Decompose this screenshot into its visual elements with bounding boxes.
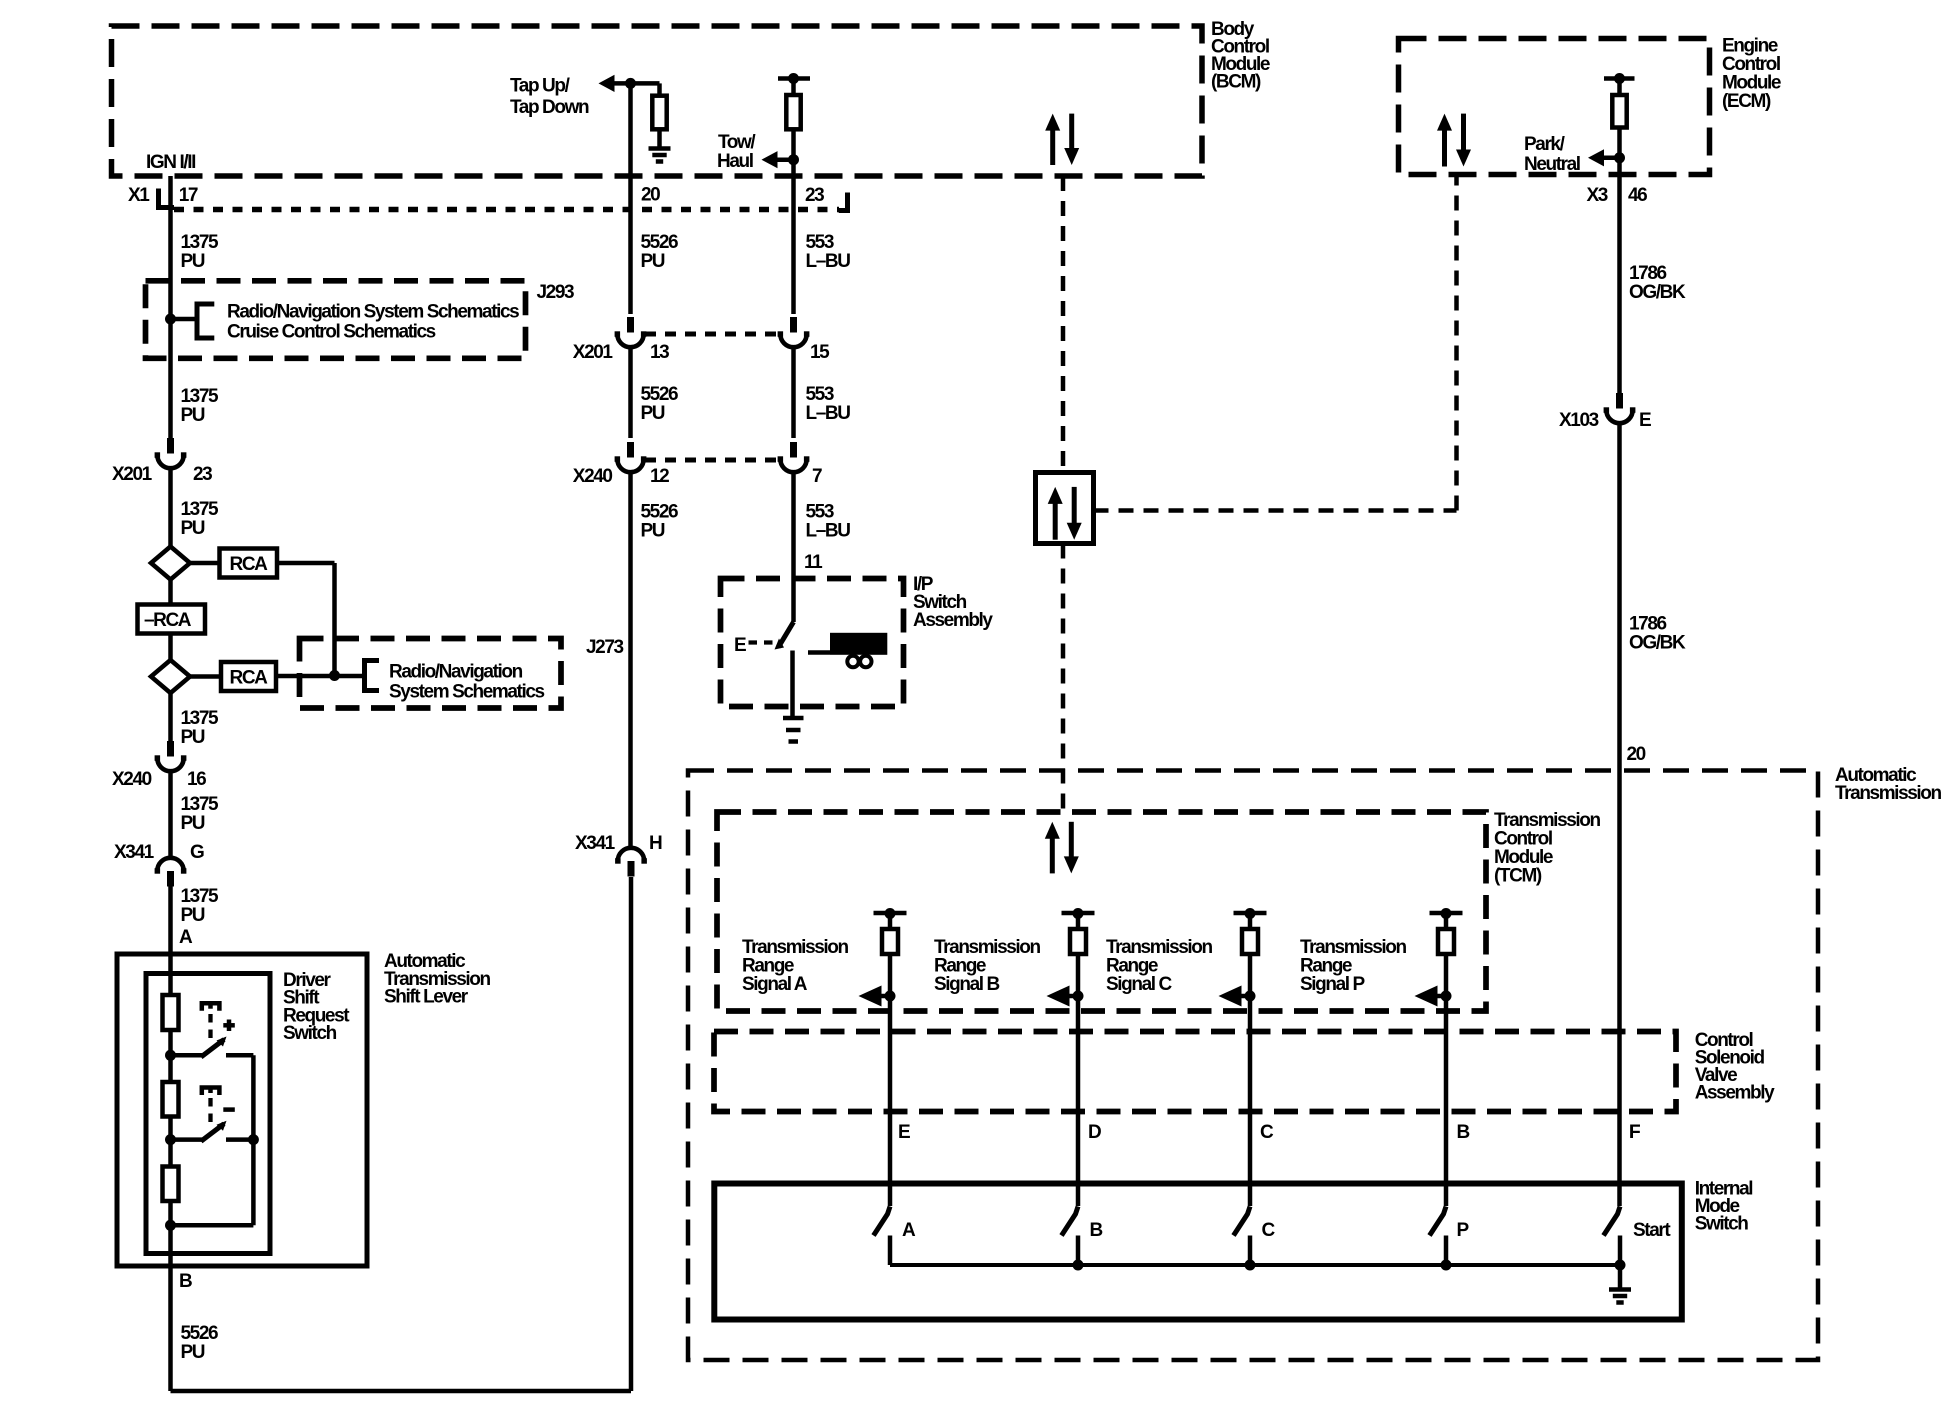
TCM internal bar for Signal A (874, 911, 907, 916)
Engine Control Module (ECM) dashed box (1399, 39, 1710, 175)
svg-text:C: C (1262, 1220, 1276, 1241)
wire 553 L-BU to BCM pin 23 (791, 129, 796, 314)
svg-text:B: B (179, 1271, 192, 1292)
svg-text:553: 553 (806, 384, 834, 405)
pull-up resistor Signal C (1248, 914, 1253, 930)
wire to J293 bracket (171, 317, 198, 322)
svg-text:1375: 1375 (181, 232, 220, 253)
resistor in BCM on tap signal (652, 96, 666, 130)
trailer icon body (830, 633, 887, 655)
TCM serial data up/down arrows (1050, 838, 1055, 874)
connector X341 pin H (628, 861, 635, 877)
serial data dashed branch to ECM (1094, 508, 1457, 513)
Tow/Haul arrow (776, 157, 794, 162)
wire label 553 L-BU mid (791, 347, 796, 438)
svg-text:46: 46 (1628, 185, 1647, 206)
tap-down contact to right rail (226, 1137, 253, 1142)
minus label (223, 1107, 235, 1112)
ECM internal bar for park/neutral signal (1604, 76, 1635, 81)
svg-text:Shift Lever: Shift Lever (384, 987, 469, 1008)
svg-text:16: 16 (187, 769, 206, 790)
svg-text:Radio/Navigation System Schema: Radio/Navigation System Schematics (227, 302, 519, 323)
svg-text:Transmission: Transmission (1835, 783, 1941, 804)
svg-text:Haul: Haul (717, 151, 753, 172)
svg-text:H: H (649, 833, 662, 854)
wire 1786 OG/BK down to transmission (1617, 423, 1622, 1206)
svg-text:X201: X201 (112, 464, 153, 485)
junction dot tap signal (625, 78, 636, 89)
connector X240 pin 16 (167, 741, 174, 757)
wire bottom run from B to X341 H (171, 1389, 632, 1394)
wire 1375 PU to shift lever pin A (168, 887, 173, 996)
svg-text:Assembly: Assembly (1695, 1083, 1775, 1104)
svg-text:PU: PU (181, 905, 205, 926)
wire Signal C down to internal mode switch (1248, 954, 1253, 1206)
wire 5526 PU down to X341 H (628, 472, 633, 848)
svg-text:PU: PU (641, 403, 665, 424)
switch contact wire P (1444, 1236, 1449, 1266)
svg-text:X240: X240 (573, 466, 613, 487)
svg-text:PU: PU (181, 813, 205, 834)
svg-text:Switch: Switch (283, 1023, 337, 1044)
svg-text:Assembly: Assembly (913, 610, 993, 631)
BCM serial data up/down arrows (1050, 130, 1055, 165)
svg-text:PU: PU (181, 251, 205, 272)
svg-text:B: B (1090, 1220, 1103, 1241)
connector X240 pin 7 (790, 442, 797, 458)
wire diamond1 to -RCA box (168, 580, 173, 605)
svg-text:Neutral: Neutral (1524, 154, 1580, 175)
Park/Neutral arrow (1602, 156, 1620, 161)
Tap Up/Tap Down arrow (613, 81, 631, 86)
junction dot of RCA branches (329, 670, 340, 681)
svg-text:PU: PU (181, 405, 205, 426)
svg-text:L–BU: L–BU (806, 403, 851, 424)
connector X103 pin E (1616, 393, 1623, 409)
junction splice block J273 dashed box (300, 639, 562, 709)
wire 1375 PU from BCM pin 17 down to X201 (168, 176, 173, 438)
ground of internal mode switch (1618, 1265, 1623, 1289)
svg-text:X240: X240 (112, 769, 152, 790)
svg-text:L–BU: L–BU (806, 251, 851, 272)
svg-text:OG/BK: OG/BK (1629, 282, 1686, 303)
wire below switch to ground (790, 651, 795, 717)
svg-text:X1: X1 (128, 185, 150, 206)
svg-text:11: 11 (804, 552, 823, 573)
svg-text:L–BU: L–BU (806, 521, 851, 542)
switch blade B (1062, 1207, 1079, 1236)
X201 tie dashes (645, 332, 780, 337)
RCA box lower (221, 662, 276, 691)
svg-text:1786: 1786 (1629, 263, 1667, 284)
-RCA box (138, 605, 206, 634)
bottom rail to junction (171, 1223, 254, 1228)
tap-down switch blade (201, 1124, 224, 1142)
Automatic Transmission Shift Lever box (117, 954, 367, 1266)
Transmission Range Signal A arrow (880, 994, 891, 999)
Control Solenoid Valve Assembly dashed box (714, 1032, 1676, 1112)
wire diamond to RCA box (190, 561, 220, 566)
ECM serial data up/down arrows (1442, 130, 1447, 167)
svg-text:Signal P: Signal P (1300, 974, 1365, 995)
Transmission Range Signal P arrow (1436, 994, 1447, 999)
TCM internal bar for Signal P (1430, 911, 1463, 916)
tap-down switch feed (171, 1137, 203, 1142)
tap-up switch feed (171, 1053, 203, 1058)
svg-text:23: 23 (193, 464, 212, 485)
tap-up switch fixed contact bracket (202, 1003, 220, 1011)
svg-text:X341: X341 (114, 842, 155, 863)
svg-text:RCA: RCA (230, 668, 269, 689)
right rail of shift switch (251, 1055, 256, 1225)
pull-up resistor Signal A (888, 914, 893, 930)
dashed link E to blade (749, 640, 780, 644)
X240 tie dashes (645, 458, 780, 463)
junction dot on wire in J293 (165, 314, 176, 325)
svg-text:X201: X201 (573, 342, 614, 363)
tap-down switch fixed contact bracket (202, 1088, 220, 1096)
pull-up resistor Signal B (1076, 914, 1081, 930)
tap-down switch dashed actuator link (208, 1098, 212, 1124)
svg-text:5526: 5526 (641, 502, 679, 523)
svg-text:(BCM): (BCM) (1211, 72, 1261, 93)
internal bar at BCM for tow/haul signal (778, 76, 810, 81)
svg-text:20: 20 (1627, 744, 1646, 765)
wire 1375 PU below X201 (168, 468, 173, 547)
svg-text:(ECM): (ECM) (1722, 91, 1771, 112)
switch contact wire A (888, 1236, 893, 1266)
svg-text:IGN I/II: IGN I/II (146, 152, 196, 173)
svg-text:15: 15 (810, 342, 830, 363)
branch to BCM pull resistor (631, 81, 660, 86)
Automatic Transmission dashed box (688, 771, 1818, 1361)
wire label 5526 PU mid (628, 347, 633, 438)
wire R2 to R3 with junction (168, 1117, 173, 1167)
connector X1 bracket right (839, 193, 848, 211)
svg-text:Radio/Navigation: Radio/Navigation (389, 662, 523, 683)
svg-text:Park/: Park/ (1524, 134, 1566, 155)
wire RCA2 into J273 (276, 674, 365, 679)
svg-text:P: P (1457, 1220, 1470, 1241)
resistor R-top in shift switch (163, 995, 179, 1030)
wire 553 L-BU to I/P switch (791, 472, 796, 622)
splice diamond upper (151, 547, 190, 580)
wire 1375 PU below X240 (168, 771, 173, 858)
wire label 1375 PU below diamond2 (168, 693, 173, 742)
wire Signal B down to internal mode switch (1076, 954, 1081, 1206)
svg-text:7: 7 (812, 466, 822, 487)
svg-text:17: 17 (179, 185, 198, 206)
svg-text:Tow/: Tow/ (718, 132, 756, 153)
resistor in BCM on tow/haul signal (791, 79, 796, 96)
ground below I/P switch (783, 716, 804, 721)
RCA box upper (220, 549, 278, 578)
Internal Mode Switch box (714, 1184, 1682, 1320)
svg-text:1375: 1375 (181, 708, 220, 729)
svg-text:C: C (1260, 1122, 1274, 1143)
connector X201 pin 13 (627, 317, 634, 333)
plus label (227, 1020, 232, 1032)
svg-text:5526: 5526 (641, 384, 679, 405)
svg-text:1375: 1375 (181, 499, 220, 520)
wire 5526 PU from junction to BCM pin 20 (628, 83, 633, 314)
connector X341 pin G (167, 871, 174, 887)
svg-text:(TCM): (TCM) (1494, 866, 1542, 887)
internal mode switch common bus (890, 1263, 1620, 1267)
resistor R-mid (163, 1082, 179, 1117)
splice diamond lower (151, 660, 190, 693)
wire R3 down through box to B (168, 1201, 173, 1391)
tap-up contact to right rail (226, 1053, 253, 1058)
tap-up switch dashed actuator link (208, 1014, 212, 1040)
Transmission Range Signal B arrow (1068, 994, 1079, 999)
X1 connector dotted line (174, 207, 839, 213)
svg-text:J273: J273 (586, 637, 624, 658)
svg-text:Switch: Switch (1695, 1214, 1749, 1235)
J293 bracket (197, 304, 214, 338)
svg-text:OG/BK: OG/BK (1629, 633, 1686, 654)
svg-text:5526: 5526 (641, 232, 679, 253)
serial data dashed wire from BCM down (1061, 176, 1066, 473)
serial data inline connector box (1036, 473, 1094, 544)
wire 1786 OG/BK from ECM pin 46 (1617, 128, 1622, 395)
resistor R-bottom (163, 1167, 179, 1202)
svg-text:Cruise Control Schematics: Cruise Control Schematics (227, 322, 436, 343)
svg-text:Start: Start (1633, 1220, 1671, 1241)
svg-text:X3: X3 (1587, 185, 1608, 206)
svg-text:E: E (734, 635, 746, 656)
svg-text:F: F (1629, 1122, 1640, 1143)
wire RCA to corner and down (277, 561, 335, 566)
Driver Shift Request Switch inner box (146, 974, 270, 1254)
svg-text:1786: 1786 (1629, 614, 1667, 635)
svg-text:G: G (190, 842, 204, 863)
svg-text:PU: PU (181, 727, 205, 748)
svg-text:PU: PU (181, 518, 205, 539)
svg-text:X341: X341 (575, 833, 616, 854)
svg-text:1375: 1375 (181, 886, 220, 907)
svg-text:PU: PU (641, 521, 665, 542)
svg-text:1375: 1375 (181, 794, 220, 815)
svg-text:E: E (898, 1122, 910, 1143)
svg-text:X103: X103 (1559, 410, 1599, 431)
TCM internal bar for Signal C (1234, 911, 1267, 916)
svg-text:1375: 1375 (181, 386, 220, 407)
wire R1 to R2 with junction (168, 1030, 173, 1082)
I/P Switch Assembly dashed box (721, 579, 904, 707)
svg-text:PU: PU (641, 251, 665, 272)
svg-text:E: E (1639, 410, 1651, 431)
svg-text:A: A (902, 1220, 916, 1241)
svg-text:B: B (1457, 1122, 1470, 1143)
tap-up switch blade (201, 1040, 224, 1058)
svg-text:Tap Down: Tap Down (510, 97, 589, 118)
connector X240 pin 12 (627, 442, 634, 458)
wire resistor to ground (657, 129, 662, 148)
switch contact wire Start (1618, 1236, 1623, 1266)
trailer wheels (847, 656, 858, 667)
switch blade Start (1604, 1207, 1621, 1236)
svg-text:5526: 5526 (181, 1323, 219, 1344)
Body Control Module (BCM) dashed box (112, 26, 1203, 176)
svg-text:13: 13 (650, 342, 669, 363)
connector X201 pin 15 (790, 317, 797, 333)
svg-text:Signal A: Signal A (742, 974, 808, 995)
serial data dashed wire box to TCM (1061, 544, 1066, 819)
junction splice block J293 dashed box (146, 281, 526, 359)
svg-text:RCA: RCA (230, 554, 269, 575)
Transmission Control Module (TCM) dashed box (717, 812, 1486, 1011)
svg-text:–RCA: –RCA (144, 610, 192, 631)
svg-text:23: 23 (805, 185, 824, 206)
svg-text:A: A (179, 927, 193, 948)
switch blade A (874, 1207, 891, 1236)
svg-text:D: D (1088, 1122, 1101, 1143)
resistor in ECM (1617, 79, 1622, 96)
Transmission Range Signal C arrow (1240, 994, 1251, 999)
svg-text:12: 12 (650, 466, 669, 487)
connector X201 pin 23 (167, 438, 174, 454)
connector X1 bracket left (159, 189, 175, 208)
svg-text:System Schematics: System Schematics (389, 682, 545, 703)
svg-text:20: 20 (641, 185, 660, 206)
svg-text:Signal C: Signal C (1106, 974, 1172, 995)
svg-text:553: 553 (806, 502, 834, 523)
svg-text:Signal B: Signal B (934, 974, 999, 995)
switch blade P (1430, 1207, 1447, 1236)
trailer hitch line (808, 650, 830, 655)
pull-up resistor Signal P (1444, 914, 1449, 930)
J273 bracket (365, 661, 380, 691)
svg-text:PU: PU (181, 1342, 205, 1363)
wire -RCA to diamond2 (168, 634, 173, 660)
tow/haul switch blade (779, 622, 794, 647)
switch contact wire B (1076, 1236, 1081, 1266)
svg-text:553: 553 (806, 232, 834, 253)
ground in BCM (649, 146, 671, 151)
wire diamond2 to RCA box lower (190, 674, 221, 679)
switch contact wire C (1248, 1236, 1253, 1266)
TCM internal bar for Signal B (1062, 911, 1095, 916)
switch blade C (1234, 1207, 1251, 1236)
wire Signal P down to internal mode switch (1444, 954, 1449, 1206)
svg-text:Tap Up/: Tap Up/ (510, 76, 571, 97)
svg-text:J293: J293 (537, 282, 575, 303)
wire Signal A down to internal mode switch (888, 954, 893, 1206)
